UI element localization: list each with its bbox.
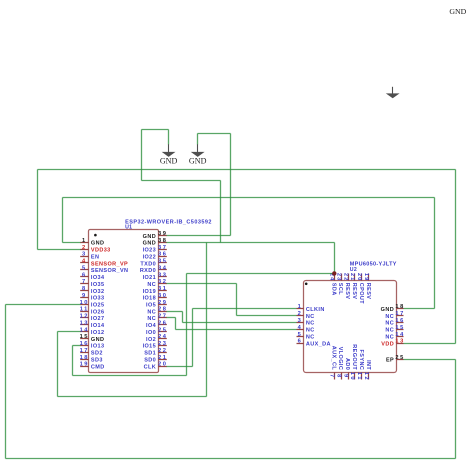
svg-text:1: 1 [298,304,303,310]
svg-text:GND: GND [91,241,104,247]
svg-text:VDD: VDD [381,341,394,347]
svg-text:16: 16 [80,341,89,347]
svg-text:21: 21 [349,273,355,281]
svg-text:SENSOR_VP: SENSOR_VP [91,261,128,267]
U2 pin 5 NC [297,336,304,338]
wire netA h [187,273,335,275]
svg-text:22: 22 [158,348,167,354]
U1 pin 34 RXD0 [159,269,167,271]
U1 pin 19 CMD [80,366,88,368]
svg-text:IO18: IO18 [143,296,157,302]
svg-text:8: 8 [82,286,87,292]
U1 pin 15 GND [80,338,88,340]
U1 pin 8 IO32 [80,290,88,292]
svg-text:32: 32 [158,279,167,285]
svg-text:IO26: IO26 [91,309,105,315]
wire VDD right v [455,170,457,344]
wire pin32 v [236,284,238,316]
IC U2 MPU6050 body [304,281,397,373]
svg-text:8: 8 [335,374,341,379]
svg-text:INT: INT [365,360,371,370]
svg-text:14: 14 [80,327,89,333]
svg-text:NC: NC [147,316,156,322]
svg-text:EN: EN [91,254,99,260]
svg-text:AUX_CL: AUX_CL [330,346,336,371]
U1 pin 3 EN [80,256,88,258]
svg-text:CPOUT: CPOUT [358,283,364,304]
svg-text:38: 38 [158,238,167,244]
U2 pin 24 SDA [334,274,336,281]
svg-text:VDD33: VDD33 [91,248,111,254]
wire long v [206,243,208,397]
svg-text:IO22: IO22 [143,254,157,260]
U1 pin 13 IO14 [80,324,88,326]
wire EP h [404,359,456,361]
wire VDD into pin13 [404,343,456,345]
wire bottom h [58,396,207,398]
U1 pin 21 SD0 [159,359,167,361]
svg-text:12: 12 [80,314,89,320]
wire GND pin1 h [63,242,81,244]
svg-text:22: 22 [342,273,348,281]
svg-text:GND: GND [143,234,156,240]
U2 pin 18 GND [397,308,404,310]
wire into left GND arrow [168,130,170,145]
U1 pin 37 IO23 [159,249,167,251]
wire pin28 v [182,312,184,323]
svg-text:17: 17 [80,348,89,354]
svg-text:13: 13 [395,339,404,345]
U2 pin 15 NC [397,329,404,331]
svg-text:7: 7 [329,374,335,379]
svg-text:11: 11 [80,307,89,313]
wire VDD top h [38,169,456,171]
svg-text:26: 26 [158,320,167,326]
wire SDA v [334,243,336,274]
U2 pin 16 NC [397,322,404,324]
U2 pin 17 NC [397,315,404,317]
svg-text:13: 13 [80,320,89,326]
svg-text:NC: NC [385,328,394,334]
svg-text:23: 23 [158,341,167,347]
wire GND top h [63,197,435,199]
U2 pin 7 AUX_CL [334,373,336,380]
U1 pin 22 SD1 [159,352,167,354]
svg-text:6: 6 [298,339,303,345]
svg-text:NC: NC [306,321,315,327]
svg-text:3: 3 [298,318,303,324]
U1 pin 24 IO2 [159,338,167,340]
U1 pin 31 IO19 [159,290,167,292]
svg-text:RESV: RESV [351,283,357,300]
svg-text:15: 15 [395,325,404,331]
svg-text:SD3: SD3 [91,358,103,364]
svg-text:3: 3 [82,252,87,258]
wire EP bottom h [6,458,456,460]
svg-text:6: 6 [82,272,87,278]
svg-text:IO13: IO13 [91,344,105,350]
wire GND pin1 v [62,198,64,243]
svg-text:GND: GND [160,157,178,166]
svg-text:31: 31 [158,286,167,292]
svg-text:IO23: IO23 [143,248,157,254]
svg-text:IO21: IO21 [143,275,157,281]
svg-text:IO12: IO12 [91,330,105,336]
svg-text:NC: NC [147,282,156,288]
svg-text:20: 20 [158,362,167,368]
svg-text:19: 19 [80,362,89,368]
svg-text:SENSOR_VN: SENSOR_VN [91,268,129,274]
wire pin27 v [175,318,177,330]
U2 pin 13 VDD [397,343,404,345]
U1 pin 32 NC [159,283,167,285]
svg-text:18: 18 [395,304,404,310]
U1 pin 28 NC [159,311,167,313]
wire into MPU pin3 [183,322,297,324]
svg-text:10: 10 [349,372,355,381]
svg-text:GND: GND [91,337,104,343]
wire IO12 v [57,332,59,397]
wire left arrow h1 [142,129,169,131]
svg-text:10: 10 [80,300,89,306]
wire pin38 h [167,242,335,244]
U2 pin 21 RESV [354,274,356,281]
svg-text:36: 36 [158,252,167,258]
U1 pin 12 IO27 [80,317,88,319]
svg-text:IO0: IO0 [146,330,156,336]
wire into MPU pin2 [237,315,297,317]
wire GND right v [434,198,436,309]
U2 pin 9 AD0 [348,373,350,380]
U2 pin 10 REGOUT [354,373,356,380]
svg-text:AD0: AD0 [344,358,350,370]
wire netA v [186,274,188,376]
U1 pin 23 IO15 [159,345,167,347]
wire VDD left v [37,170,39,250]
svg-text:20: 20 [356,273,362,281]
svg-text:IO14: IO14 [91,323,105,329]
svg-text:REGOUT: REGOUT [351,344,357,370]
U2 pin 8 VLOGIC [341,373,343,380]
wire right arrow v [230,134,232,236]
svg-text:NC: NC [385,321,394,327]
U1 pin 33 IO21 [159,276,167,278]
svg-text:IO25: IO25 [91,303,105,309]
U1 pin 18 SD3 [80,359,88,361]
svg-text:17: 17 [395,311,404,317]
wire VDD33 pin2 h [38,249,81,251]
wire left arrow h2 [142,180,221,182]
U1 pin 9 IO33 [80,297,88,299]
wire IO13 bottom h [73,375,187,377]
U1 pin 14 IO12 [80,331,88,333]
U1 pin 2 VDD33 [80,249,88,251]
svg-text:2: 2 [82,245,87,251]
U1 pin 11 IO26 [80,311,88,313]
svg-text:27: 27 [158,314,167,320]
wire right arrow h [198,133,231,135]
U2 pin 20 CPOUT [361,274,363,281]
svg-text:1: 1 [82,238,87,244]
svg-text:SD1: SD1 [144,351,156,357]
U1 pin 17 SD2 [80,352,88,354]
svg-text:IO19: IO19 [143,289,157,295]
wire pin27 h [167,317,176,319]
U1 pin 1 GND [80,242,88,244]
svg-text:NC: NC [306,328,315,334]
svg-text:25: 25 [395,355,404,361]
wire pin32 h [167,283,237,285]
ground lone arrow [392,87,394,94]
svg-text:11: 11 [356,372,362,381]
svg-text:12: 12 [363,372,369,381]
svg-text:39: 39 [158,231,167,237]
svg-text:4: 4 [298,325,303,331]
svg-text:29: 29 [158,300,167,306]
wire EP into IO25 [6,304,81,306]
U1 pin 16 IO13 [80,345,88,347]
U2 pin 23 SCL [341,274,343,281]
svg-text:21: 21 [158,355,167,361]
U1 pin 29 IO5 [159,304,167,306]
node SDA junction [332,271,336,275]
svg-text:CLKIN: CLKIN [306,307,325,313]
wire IO13 pin16 h [73,345,81,347]
svg-text:15: 15 [80,334,89,340]
svg-text:9: 9 [82,293,87,299]
wire IO12 pin14 h [58,331,81,333]
U1 pin 20 CLK [159,366,167,368]
svg-text:NC: NC [385,335,394,341]
wire left arrow v1 [141,130,143,181]
wire into right GND arrow [197,134,199,145]
U2 pin 22 RESV [348,274,350,281]
U1 pin 4 SENSOR_VP [80,262,88,264]
svg-text:IO34: IO34 [91,275,105,281]
U2 pin 1 CLKIN [297,308,304,310]
svg-text:SDA: SDA [330,283,336,296]
U1 pin 38 GND [159,242,167,244]
U1 pin 36 IO22 [159,256,167,258]
U2 pin 14 NC [397,336,404,338]
svg-text:28: 28 [158,307,167,313]
svg-text:16: 16 [395,318,404,324]
svg-text:33: 33 [158,272,167,278]
svg-text:9: 9 [342,374,348,379]
svg-text:IO2: IO2 [146,337,156,343]
svg-text:4: 4 [82,259,87,265]
U1 pin 6 IO34 [80,276,88,278]
svg-text:5: 5 [298,332,303,338]
ground GND left [168,144,170,152]
svg-text:IO32: IO32 [91,289,105,295]
svg-text:RXD0: RXD0 [140,268,156,274]
svg-text:NC: NC [147,309,156,315]
svg-text:EP: EP [386,358,394,364]
U1 pin 26 IO4 [159,324,167,326]
wire CLK pin20 h [167,366,193,368]
svg-text:GND: GND [381,307,394,313]
wire CLKIN v [192,309,194,367]
svg-text:GND: GND [189,157,207,166]
U2 pin 25 EP [397,359,404,361]
wire EP left v [5,305,7,459]
U2 pin 11 FSYNC [361,373,363,380]
svg-text:IO5: IO5 [146,303,156,309]
svg-text:IO33: IO33 [91,296,105,302]
wire into CLKIN [193,308,297,310]
svg-text:RESV: RESV [365,283,371,300]
ground GND right [197,144,199,152]
svg-text:34: 34 [158,266,167,272]
U2 pin 19 RESV [368,274,370,281]
svg-text:AUX_DA: AUX_DA [306,341,331,347]
wire pin39 h [167,235,231,237]
U1 pin 5 SENSOR_VN [80,269,88,271]
IC U1 ESP32-WROVER-IB body [89,230,159,373]
svg-text:VLOGIC: VLOGIC [337,347,343,370]
wire left arrow v2 [220,181,222,243]
svg-text:U1: U1 [125,224,132,230]
svg-text:ESP32-WROVER-IB_C503592: ESP32-WROVER-IB_C503592 [125,219,212,225]
svg-text:30: 30 [158,293,167,299]
U1 pin 7 IO35 [80,283,88,285]
U2 pin 3 NC [297,322,304,324]
wire pin28 h [167,311,183,313]
U2 pin 2 NC [297,315,304,317]
svg-text:CLK: CLK [144,364,157,370]
svg-text:18: 18 [80,355,89,361]
svg-text:IO15: IO15 [143,344,157,350]
svg-text:SD0: SD0 [144,358,156,364]
svg-text:NC: NC [306,314,315,320]
U2 pin 6 AUX_DA [297,343,304,345]
svg-text:FSYNC: FSYNC [358,350,364,371]
U1 pin 35 TXD0 [159,262,167,264]
U1 pin 27 NC [159,317,167,319]
svg-text:RESV: RESV [344,283,350,300]
svg-text:35: 35 [158,259,167,265]
U1 pin 25 IO0 [159,331,167,333]
svg-text:5: 5 [82,266,87,272]
svg-text:NC: NC [306,335,315,341]
svg-text:U2: U2 [350,267,357,273]
svg-text:GND: GND [143,241,156,247]
wire EP right v [455,360,457,459]
wire into MPU pin4 [176,329,297,331]
svg-text:19: 19 [363,273,369,281]
svg-text:IO27: IO27 [91,316,105,322]
U1 pin 39 GND [159,235,167,237]
svg-text:37: 37 [158,245,167,251]
svg-text:2: 2 [298,311,303,317]
U2 pin 12 INT [368,373,370,380]
svg-text:25: 25 [158,327,167,333]
wire GND into pin18 [404,308,435,310]
svg-text:SCL: SCL [337,283,343,295]
wire IO13 v [72,346,74,376]
U1 pin 30 IO18 [159,297,167,299]
svg-text:CMD: CMD [91,364,105,370]
svg-text:TXD0: TXD0 [140,261,156,267]
svg-text:NC: NC [385,314,394,320]
svg-text:IO35: IO35 [91,282,105,288]
svg-text:7: 7 [82,279,87,285]
U2 pin 4 NC [297,329,304,331]
svg-text:24: 24 [158,334,167,340]
svg-text:IO4: IO4 [146,323,157,329]
svg-text:GND: GND [449,7,466,16]
U1 pin 10 IO25 [80,304,88,306]
svg-text:14: 14 [395,332,404,338]
svg-text:SD2: SD2 [91,351,103,357]
